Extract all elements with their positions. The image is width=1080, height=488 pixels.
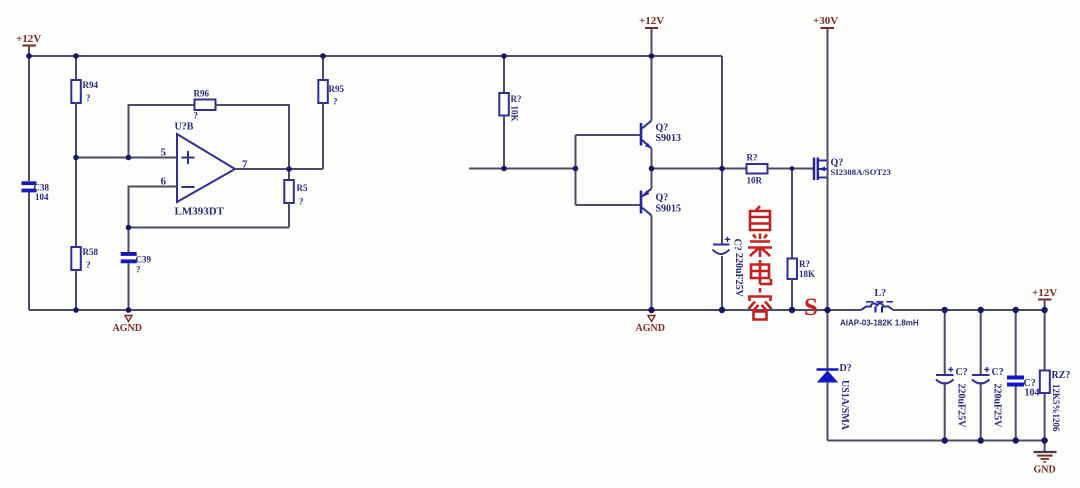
ground GND [1034, 441, 1057, 476]
capacitor C? 220uF25V (output 1) [936, 310, 968, 441]
wire noninverting input [76, 157, 177, 159]
svg-text:104: 104 [35, 192, 49, 202]
svg-text:12K5%1206: 12K5%1206 [1051, 384, 1061, 432]
svg-text:?: ? [299, 197, 304, 207]
wire left vertical lower [28, 192, 30, 310]
transistor Q? SI2308A/SOT23 (MOSFET) [814, 158, 892, 311]
svg-text:Q?: Q? [656, 123, 669, 134]
svg-text:10R: 10R [747, 176, 763, 186]
svg-text:?: ? [333, 97, 338, 107]
transistor Q? S9013 [641, 56, 681, 169]
power +12V (middle) [639, 15, 664, 56]
wire driver output [652, 168, 747, 170]
resistor R5 [284, 169, 308, 228]
capacitor C38 [22, 181, 50, 202]
wire output rail [893, 309, 1045, 311]
svg-text:104: 104 [1025, 388, 1040, 399]
svg-text:RZ?: RZ? [1052, 370, 1071, 381]
svg-text:18K: 18K [799, 269, 815, 279]
op-amp U?B LM393DT [161, 122, 249, 218]
resistor R94 [71, 56, 98, 158]
svg-text:R94: R94 [83, 80, 99, 90]
svg-text:220uF25V: 220uF25V [733, 253, 744, 298]
svg-text:S9013: S9013 [656, 133, 682, 144]
power +12V (right) [1032, 287, 1057, 310]
svg-text:D?: D? [840, 363, 852, 374]
resistor R95 [318, 56, 344, 169]
wire bootstrap branch [721, 56, 723, 244]
svg-text:R96: R96 [194, 89, 210, 99]
svg-text:?: ? [136, 265, 141, 275]
svg-text:AIAP-03-182K 1.8mH: AIAP-03-182K 1.8mH [840, 319, 919, 328]
svg-text:+12V: +12V [16, 33, 41, 45]
wire top rail [29, 55, 722, 57]
transistor Q? S9015 [641, 169, 681, 311]
wire left vertical upper [28, 56, 30, 181]
svg-text:R58: R58 [83, 247, 99, 257]
capacitor C39 [121, 228, 152, 311]
svg-text:+12V: +12V [1032, 287, 1057, 299]
svg-text:?: ? [86, 260, 91, 270]
svg-text:+30V: +30V [813, 15, 838, 27]
wire bottom rail left [29, 309, 861, 311]
svg-text:GND: GND [1034, 465, 1056, 476]
svg-text:R95: R95 [329, 84, 345, 94]
text 自举电容 (bootstrap capacitor, red) [748, 206, 772, 320]
svg-text:R?: R? [747, 153, 758, 163]
capacitor C? 104 [1007, 310, 1040, 441]
svg-text:C38: C38 [34, 183, 50, 193]
svg-text:?: ? [194, 111, 199, 121]
svg-text:S: S [804, 294, 818, 321]
svg-text:5: 5 [161, 147, 167, 159]
power +30V [813, 15, 838, 161]
svg-text:L?: L? [875, 288, 887, 299]
svg-text:C?: C? [732, 239, 743, 251]
resistor R58 [71, 158, 98, 311]
wire base rail [576, 135, 642, 205]
svg-text:Q?: Q? [656, 193, 669, 204]
wire feedback bottom [129, 227, 290, 229]
svg-text:AGND: AGND [636, 323, 665, 334]
diode D? US1A/SMA [817, 310, 852, 441]
svg-text:220uF25V: 220uF25V [992, 384, 1003, 429]
svg-text:?: ? [86, 93, 91, 103]
svg-text:220uF25V: 220uF25V [956, 384, 967, 429]
power +12V (top left) [16, 33, 41, 56]
wire bottom rail right [828, 440, 1045, 442]
svg-text:S9015: S9015 [656, 204, 682, 215]
ground AGND (middle) [636, 316, 665, 335]
resistor R7 10K [499, 56, 521, 169]
wire driver input [469, 168, 576, 170]
svg-text:U?B: U?B [175, 122, 194, 133]
svg-text:C39: C39 [136, 255, 152, 265]
svg-text:SI2308A/SOT23: SI2308A/SOT23 [831, 167, 892, 177]
resistor R? 18K [788, 169, 816, 311]
wire op-amp output [235, 168, 323, 170]
wire inverting input [129, 187, 178, 228]
inductor L? AIAP-03-182K [840, 288, 919, 328]
resistor RZ? [1040, 310, 1071, 441]
svg-text:R?: R? [799, 259, 810, 269]
svg-text:R?: R? [511, 94, 522, 104]
svg-text:C?: C? [956, 367, 968, 378]
svg-text:10K: 10K [510, 106, 520, 122]
svg-text:C?: C? [992, 367, 1004, 378]
svg-text:R5: R5 [297, 183, 308, 193]
svg-text:AGND: AGND [113, 323, 142, 334]
svg-text:LM393DT: LM393DT [175, 206, 225, 218]
capacitor C? 220uF25V (output 2) [972, 310, 1004, 441]
resistor R96 feedback [129, 89, 290, 170]
svg-text:+12V: +12V [639, 15, 664, 27]
resistor R? 10R [747, 153, 815, 186]
svg-text:US1A/SMA: US1A/SMA [839, 380, 850, 431]
ground AGND (left) [113, 316, 142, 335]
capacitor C? 220uF25V (bootstrap) [713, 237, 745, 310]
